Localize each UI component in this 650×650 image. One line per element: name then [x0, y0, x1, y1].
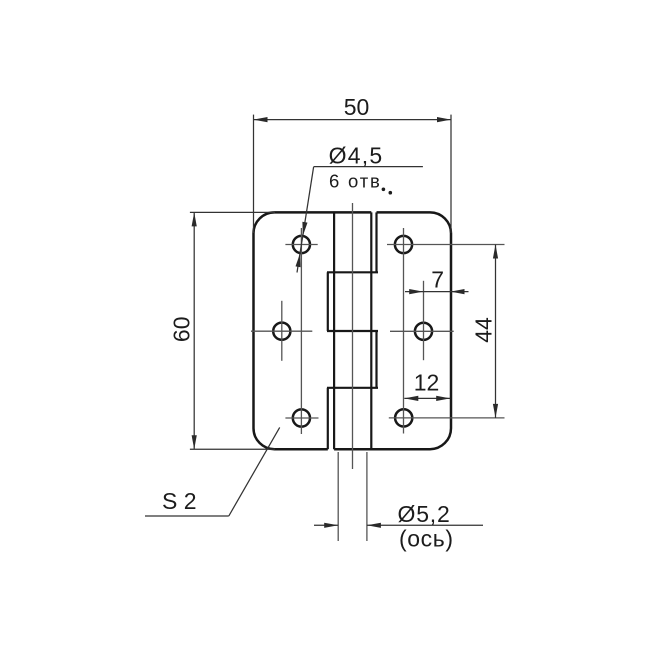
bottom-left hole horizontal centerline: [285, 417, 318, 419]
hole mid-right: [415, 323, 432, 340]
svg-text:12: 12: [414, 370, 440, 396]
dim 7 dimension line: [423, 291, 450, 293]
dim 44 dimension line: [495, 245, 497, 418]
dia 4,5 leader upper arrowhead: [302, 222, 307, 236]
S2 leader underline: [145, 515, 229, 517]
dim 7 left arrowhead: [409, 289, 423, 294]
dim 50 left extension line: [253, 115, 255, 233]
hole bottom-left: [293, 409, 310, 426]
knuckle outer edge row 4: [327, 388, 329, 449]
dim 50 dimension line: [254, 119, 452, 121]
dim 12 right arrowhead: [436, 396, 450, 401]
dim 44 bottom arrowhead: [493, 404, 498, 418]
svg-text:Ø4,5: Ø4,5: [329, 142, 384, 168]
hole bottom-right: [395, 409, 412, 426]
svg-text:60: 60: [169, 317, 195, 343]
knuckle joint line 3: [327, 387, 378, 389]
dim 60 bottom arrowhead: [192, 435, 197, 449]
knuckle barrel right edge: [370, 212, 372, 449]
knuckle joint line 1: [327, 271, 378, 273]
pin right extension line: [366, 452, 368, 541]
svg-text:6 отв: 6 отв: [329, 171, 382, 192]
dim 5,2 left dimension line: [314, 524, 338, 526]
dim 60 bottom extension line: [190, 448, 275, 450]
svg-text:(ось): (ось): [399, 526, 454, 552]
dia 4,5 leader shoulder: [314, 166, 423, 168]
mid-left hole horizontal centerline: [251, 330, 312, 332]
dim 5,2 right arrowhead: [367, 523, 381, 528]
top-right hole centerline / dim 44 top extension: [387, 244, 505, 246]
dim 7 right arrow tail: [451, 291, 469, 293]
svg-text:Ø5,2: Ø5,2: [398, 501, 451, 527]
bottom-right hole centerline / dim 44 bottom extension: [389, 417, 505, 419]
mid-right hole horizontal centerline: [390, 330, 454, 332]
svg-text:S 2: S 2: [162, 488, 197, 514]
dia 4,5 leader lower arrowhead: [296, 253, 301, 267]
top-left hole horizontal centerline: [285, 244, 317, 246]
right hole column centerline: [403, 228, 405, 434]
dim 5,2 right dimension line: [367, 524, 483, 526]
dim 60 top extension line: [190, 211, 275, 213]
dim 50 right extension line: [450, 115, 452, 233]
hole top-right: [395, 236, 412, 253]
knuckle barrel left edge: [333, 212, 335, 449]
knuckle joint line 2: [327, 330, 378, 332]
S2 leader slanted line: [229, 427, 280, 516]
pin axis centerline: [352, 203, 354, 469]
hinge right leaf outline: [334, 212, 451, 449]
dim 7 right arrowhead: [451, 289, 465, 294]
right leaf slot edge row 3: [375, 331, 377, 388]
mid-left hole vertical centerline: [281, 301, 283, 361]
left hole column centerline: [300, 228, 302, 434]
pin left extension line: [337, 452, 339, 541]
dia 4,5 leader slanted line: [297, 167, 314, 273]
knuckle outer edge row 2: [327, 272, 329, 331]
callout period dot: [382, 188, 386, 192]
dim 5,2 left arrowhead: [324, 523, 338, 528]
right leaf slot edge row 1: [375, 212, 377, 272]
hole top-left: [293, 236, 310, 253]
dim 7 left arrow tail: [405, 291, 423, 293]
hole mid-left: [273, 323, 290, 340]
dim 12 dimension line: [404, 397, 450, 399]
svg-text:44: 44: [471, 317, 497, 343]
callout extra dot: [389, 191, 393, 195]
dim 60 top arrowhead: [192, 212, 197, 226]
svg-text:7: 7: [431, 267, 444, 293]
hinge left leaf outline: [254, 212, 372, 449]
dim 50 left arrowhead: [254, 117, 268, 122]
dim 12 left arrowhead: [404, 396, 418, 401]
dim 60 dimension line: [193, 212, 195, 449]
dim 44 top arrowhead: [493, 245, 498, 259]
svg-text:50: 50: [344, 94, 370, 120]
dim 50 right arrowhead: [437, 117, 451, 122]
mid-right hole vertical centerline / dim 7 extension: [423, 281, 425, 360]
